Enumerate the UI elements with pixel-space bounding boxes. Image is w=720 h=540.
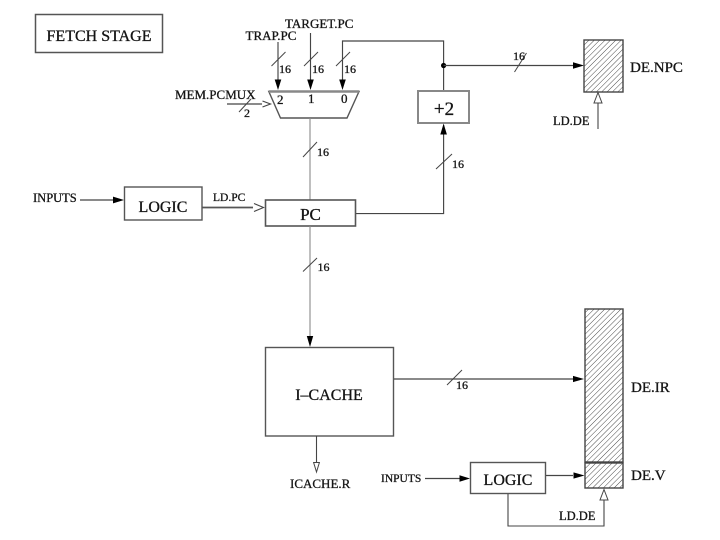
wire PC output to +2	[356, 124, 464, 214]
adder +2	[418, 91, 469, 123]
svg-text:16: 16	[344, 62, 356, 76]
svg-text:LD.DE: LD.DE	[553, 114, 590, 128]
svg-text:2: 2	[277, 92, 284, 107]
svg-text:MEM.PCMUX: MEM.PCMUX	[175, 87, 256, 102]
wire PC output down to I-CACHE	[303, 226, 330, 347]
svg-text:INPUTS: INPUTS	[381, 473, 421, 485]
label INPUTS (left)	[33, 191, 77, 205]
svg-text:16: 16	[317, 145, 329, 159]
wire TARGET.PC into mux input 1	[304, 33, 324, 90]
block I-CACHE	[266, 348, 394, 437]
svg-text:16: 16	[312, 62, 324, 76]
label LD.DE (top)	[553, 114, 590, 128]
wire INPUTS into LOGIC (bottom)	[425, 475, 470, 482]
block LOGIC (fetch)	[125, 187, 203, 220]
svg-text:16: 16	[279, 62, 291, 76]
label TARGET.PC	[285, 16, 353, 31]
wire LD.DE into DE.V	[508, 490, 608, 527]
svg-text:DE.NPC: DE.NPC	[630, 60, 683, 76]
svg-text:LOGIC: LOGIC	[139, 199, 188, 216]
label MEM.PCMUX	[175, 87, 256, 102]
wire LD.PC LOGIC to PC	[202, 204, 264, 212]
block LOGIC (decode valid)	[471, 463, 546, 494]
mux PCMUX trapezoid	[269, 91, 359, 118]
svg-text:ICACHE.R: ICACHE.R	[290, 476, 351, 491]
label INPUTS (bottom)	[381, 473, 421, 485]
wire TRAP.PC into mux input 2	[272, 42, 292, 90]
wire mux output to PC	[303, 118, 329, 200]
label TRAP.PC	[246, 28, 297, 43]
svg-text:0: 0	[341, 91, 348, 106]
label DE.NPC	[630, 60, 683, 76]
register PC	[266, 200, 356, 226]
svg-text:LOGIC: LOGIC	[484, 472, 533, 489]
wire ICACHE.R output	[314, 436, 320, 472]
svg-text:1: 1	[308, 91, 315, 106]
label LD.PC	[213, 192, 246, 204]
register DE.NPC (hatched)	[584, 40, 623, 92]
svg-text:TRAP.PC: TRAP.PC	[246, 28, 297, 43]
label LD.DE (bottom)	[559, 509, 596, 523]
title box FETCH STAGE	[36, 15, 163, 53]
svg-text:I–CACHE: I–CACHE	[295, 387, 363, 404]
svg-text:16: 16	[513, 49, 525, 63]
label DE.IR	[631, 380, 670, 396]
svg-text:16: 16	[452, 157, 464, 171]
label ICACHE.R	[290, 476, 351, 491]
wire LOGIC to DE.V	[546, 472, 585, 478]
svg-text:LD.PC: LD.PC	[213, 192, 246, 204]
label DE.V	[631, 468, 666, 484]
svg-text:PC: PC	[300, 205, 321, 224]
svg-text:FETCH STAGE: FETCH STAGE	[47, 28, 152, 45]
register DE.V (hatched)	[585, 463, 623, 488]
wire from +2 output into mux input 0	[336, 41, 444, 91]
svg-text:+2: +2	[434, 99, 454, 120]
svg-text:16: 16	[318, 260, 330, 274]
wire LD.DE into DE.NPC	[594, 93, 602, 130]
wire I-CACHE to DE.IR	[394, 370, 584, 392]
svg-text:DE.V: DE.V	[631, 468, 666, 484]
svg-text:DE.IR: DE.IR	[631, 380, 670, 396]
wire mux select MEM.PCMUX	[227, 99, 271, 120]
svg-text:16: 16	[456, 378, 468, 392]
svg-text:INPUTS: INPUTS	[33, 191, 77, 205]
wire INPUTS into LOGIC	[80, 197, 124, 204]
junction node on +2 feed	[441, 63, 446, 68]
svg-text:LD.DE: LD.DE	[559, 509, 596, 523]
wire +2/PC+2 to DE.NPC	[444, 49, 584, 72]
svg-text:2: 2	[244, 106, 250, 120]
register DE.IR (hatched)	[585, 309, 623, 462]
